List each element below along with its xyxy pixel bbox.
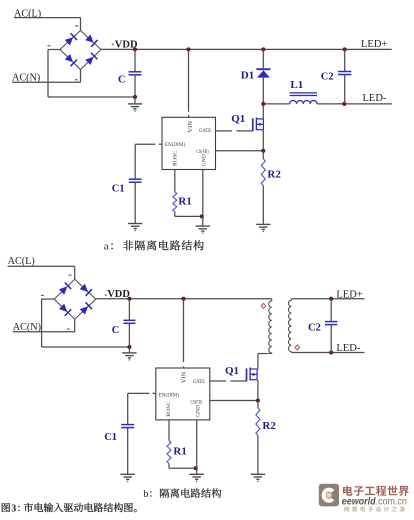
svg-text:C1: C1 — [112, 184, 125, 195]
junction VDD rail / VIN b — [181, 297, 185, 301]
bridge diode b bottom-left — [59, 304, 71, 316]
transformer T1 secondary polarity diamond — [295, 345, 300, 350]
ground under R2 b — [251, 474, 265, 481]
wire rail to C2 a — [344, 49, 346, 71]
svg-text:eeworld.com.cn: eeworld.com.cn — [342, 497, 407, 508]
ground under GND pin a — [196, 226, 210, 233]
junction LED- / C2 b — [329, 350, 333, 354]
transistor Q1 b — [247, 368, 258, 382]
wire EN(DIM) to C1 a — [135, 143, 155, 145]
ground under R2 a — [256, 224, 270, 231]
wire down to C1 a — [134, 144, 136, 179]
svg-text:R1: R1 — [178, 196, 191, 208]
wire VDD rail a — [101, 48, 392, 50]
wire CS(FB) to Q1 source b — [210, 400, 258, 402]
bridge diode a top-left — [65, 33, 77, 45]
wire VIN drop b — [183, 299, 185, 362]
wire GATE to Q1 b part2 — [231, 380, 247, 382]
junction Q1 source / R2 a — [261, 149, 265, 153]
transformer T1 primary winding — [266, 299, 272, 354]
bridge rectifier BR2 diamond b — [54, 279, 95, 319]
svg-text:3: 3 — [11, 503, 16, 514]
eeworld slogan — [344, 507, 349, 512]
op-amp/controller IC U1 a — [162, 117, 216, 169]
caption b colon+text — [150, 491, 151, 496]
svg-text:LED+: LED+ — [361, 39, 387, 50]
wire EN stub a — [159, 143, 162, 145]
wire b ground return — [42, 346, 130, 348]
wire AC(N) horizontal a — [12, 81, 81, 83]
svg-text:ROSC: ROSC — [172, 151, 178, 166]
wire AC(L) horizontal b — [8, 265, 75, 267]
wire ROSC to R1 b — [168, 420, 170, 441]
junction VDD rail / VIN a — [186, 47, 190, 51]
wire R2 to ground a — [262, 186, 264, 225]
figure caption 图3 — [2, 503, 10, 512]
transformer T1 primary polarity diamond — [261, 303, 266, 308]
ground under C b — [122, 353, 136, 360]
bridge diode b top-right — [80, 284, 92, 296]
svg-text:EN(DIM): EN(DIM) — [165, 141, 186, 148]
svg-text:EN(DIM): EN(DIM) — [159, 392, 180, 399]
bridge diode b top-left — [59, 282, 71, 294]
wire VDD to C a — [134, 49, 136, 71]
wire D1 to Q1 drain a — [262, 78, 264, 119]
junction switch node a — [261, 102, 265, 106]
eeworld logo chinese text — [343, 486, 352, 496]
wire R1 bottom b — [168, 464, 170, 469]
wire C to ground return a — [134, 75, 136, 97]
wire to R2 b — [257, 401, 259, 408]
wire C to ground return b — [128, 323, 130, 347]
capacitor C2 b — [325, 322, 337, 325]
svg-text:b: b — [143, 489, 148, 500]
svg-text:C2: C2 — [308, 322, 321, 333]
wire AC(L) drop to bridge a — [80, 18, 82, 31]
junction LED- / C2 a — [342, 102, 346, 106]
plus mark at VDD a — [112, 43, 114, 45]
bridge a minus mark left — [48, 45, 51, 47]
svg-text:GATE: GATE — [199, 128, 212, 134]
inductor L1 a — [290, 93, 317, 104]
ground under GND pin b — [190, 474, 204, 481]
bridge b minus mark left — [41, 294, 44, 296]
resistor R2 b — [256, 408, 260, 436]
wire VIN stub a — [188, 115, 190, 117]
bridge b AC mark top — [69, 275, 72, 276]
svg-text:GATE: GATE — [193, 379, 206, 385]
svg-text:R2: R2 — [262, 420, 276, 432]
wire AC(N) rise to bridge a — [80, 70, 82, 83]
capacitor C b — [123, 320, 135, 323]
wire R1 bottom a — [174, 212, 176, 217]
svg-text:LED+: LED+ — [336, 290, 362, 301]
wire bridge a negative drop — [47, 50, 49, 98]
svg-text:R2: R2 — [267, 168, 281, 180]
diode D1 a — [256, 69, 270, 77]
wire C2 to LED- b — [330, 325, 332, 353]
svg-text:D1: D1 — [241, 70, 254, 82]
svg-text:C: C — [112, 325, 120, 336]
junction LED+ / C2 b — [329, 297, 333, 301]
wire VIN drop a — [188, 49, 190, 111]
bridge diode a bottom-right — [85, 53, 97, 65]
wire AC(L) horizontal a — [14, 17, 81, 19]
wire LED+ line b — [291, 298, 364, 300]
junction C bottom b — [127, 345, 131, 349]
bridge a AC mark bottom — [75, 79, 78, 80]
wire VIN stub b — [183, 367, 185, 369]
ground under C a — [128, 104, 142, 111]
wire Q1 source drop b — [257, 380, 259, 401]
svg-text:C2: C2 — [321, 72, 334, 83]
svg-text:L1: L1 — [290, 79, 303, 91]
wire CS(FB) to Q1 source a — [216, 150, 264, 152]
junction R1 / GND pin b — [194, 466, 198, 470]
svg-text:VIN: VIN — [188, 120, 194, 132]
wire VDD rail b — [96, 298, 272, 300]
resistor R1 a — [173, 192, 177, 212]
wire C1 to ground b — [127, 428, 129, 474]
wire rail to D1 a — [262, 49, 264, 68]
transistor Q1 a — [253, 117, 264, 131]
svg-text:a: a — [104, 241, 109, 253]
wire stub to ground symbol a — [134, 97, 136, 103]
junction VDD rail / D1 a — [261, 47, 265, 51]
svg-text:AC(L): AC(L) — [8, 256, 35, 267]
wire bridge a left stub — [48, 49, 60, 51]
wire EN stub b — [153, 392, 156, 394]
wire EN(DIM) to C1 b — [128, 392, 150, 394]
svg-text:Q1: Q1 — [231, 113, 245, 125]
junction C bottom a — [133, 95, 137, 99]
svg-text:CS(FB): CS(FB) — [190, 399, 202, 406]
op-amp/controller IC U2 b — [156, 368, 210, 420]
resistor R1 b — [167, 441, 171, 464]
bridge diode a bottom-left — [65, 54, 77, 66]
wire stub to ground symbol b — [128, 347, 130, 352]
capacitor C1 b — [121, 425, 134, 428]
wire C1 to ground a — [134, 183, 136, 223]
junction VDD rail / C2 a — [343, 47, 347, 51]
svg-text:C1: C1 — [104, 432, 117, 443]
wire Q1 source drop a — [262, 130, 264, 151]
ground under C1 b — [121, 474, 135, 481]
wire GATE to Q1 a part1 — [216, 130, 233, 132]
wire LED- line b — [291, 352, 364, 354]
svg-text:LED-: LED- — [336, 343, 360, 354]
wire primary bottom b — [258, 353, 266, 355]
wire R1 to GND net b — [169, 467, 197, 469]
wire C2 to LED- a — [344, 75, 346, 104]
wire R1 to GND net a — [175, 215, 203, 217]
wire GND pin drop a — [202, 170, 204, 226]
svg-text:Q1: Q1 — [225, 365, 239, 377]
svg-text:CS(FB): CS(FB) — [196, 148, 208, 155]
svg-text:ROSC: ROSC — [166, 401, 172, 416]
bridge diode a top-right — [85, 34, 97, 46]
capacitor C1 a — [129, 179, 142, 182]
wire bridge b negative drop — [41, 299, 43, 347]
wire GATE to Q1 b part1 — [210, 380, 226, 382]
svg-text:GND: GND — [195, 405, 201, 417]
junction R1 / GND pin a — [200, 214, 204, 218]
wire VDD to C b — [128, 299, 130, 321]
wire AC(N) horizontal b — [13, 331, 75, 333]
wire down to C1 b — [127, 393, 129, 424]
wire AC(L) drop to bridge b — [74, 266, 76, 279]
svg-text:R1: R1 — [173, 445, 186, 457]
bridge a AC mark top — [75, 26, 78, 27]
caption a colon+text — [111, 243, 112, 249]
bridge diode b bottom-right — [80, 302, 92, 314]
wire AC(N) rise to bridge b — [74, 319, 76, 332]
svg-text:LED-: LED- — [363, 93, 387, 104]
wire bridge b left stub — [42, 298, 55, 300]
plus mark at VDD b — [105, 294, 107, 296]
junction VDD rail / C a — [133, 47, 137, 51]
ground under C1 a — [128, 224, 142, 231]
eeworld logo mark — [319, 484, 339, 507]
resistor R2 a — [261, 159, 265, 186]
capacitor C a — [129, 72, 142, 75]
svg-text:C: C — [118, 75, 126, 86]
svg-text:VIN: VIN — [182, 371, 188, 383]
wire GND pin drop b — [196, 420, 198, 474]
junction Q1 source / R2 b — [256, 398, 260, 402]
junction VDD rail / C b — [127, 297, 131, 301]
wire LED+ to C2 b — [330, 299, 332, 322]
bridge b AC mark bottom — [67, 329, 70, 330]
wire a ground return — [48, 96, 135, 98]
wire R2 to ground b — [257, 436, 259, 475]
wire GATE to Q1 a part2 — [237, 130, 253, 132]
bridge rectifier BR1 diamond a — [60, 31, 101, 70]
capacitor C2 a — [338, 72, 351, 75]
svg-text:GND: GND — [202, 154, 208, 166]
wire ROSC to R1 a — [174, 170, 176, 192]
transformer T1 secondary winding — [288, 299, 291, 353]
wire primary to Q1 drain b — [257, 354, 259, 370]
wire to R2 a — [262, 151, 264, 159]
wire switch node to L1 a — [263, 103, 289, 105]
wire LED- line a — [317, 103, 392, 105]
